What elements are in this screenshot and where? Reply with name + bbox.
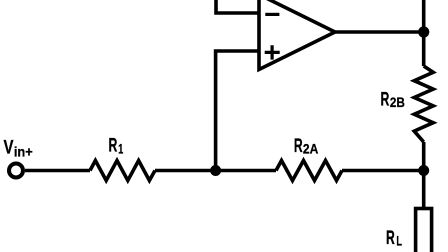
op-amp U1	[259, 0, 335, 70]
input terminal circle Vin+	[9, 164, 23, 178]
wire op-amp output	[335, 30, 424, 34]
wire R1 to node A and on to R2A	[155, 169, 276, 173]
wire from node A up to non-inverting input	[216, 51, 259, 171]
node B (right bottom junction)	[418, 165, 429, 176]
node output junction	[418, 26, 429, 37]
wire R2B to node B and down to RL	[422, 142, 426, 209]
svg-text:R: R	[109, 136, 118, 157]
wire terminal to R1	[25, 169, 90, 173]
svg-text:V: V	[4, 137, 14, 158]
resistor R1	[90, 161, 155, 181]
svg-text:R: R	[381, 90, 390, 111]
op-amp minus pin symbol	[265, 13, 279, 16]
resistor R2B	[414, 66, 433, 142]
wire right vertical (output node up, cut off)	[422, 0, 426, 66]
svg-text:2A: 2A	[303, 140, 318, 156]
svg-text:2B: 2B	[390, 94, 405, 110]
resistor RL (box style)	[416, 209, 432, 252]
node A (input junction)	[210, 165, 221, 176]
svg-text:R: R	[294, 136, 303, 157]
op-amp plus pin symbol	[265, 45, 280, 59]
svg-text:in+: in+	[14, 143, 33, 159]
svg-text:1: 1	[118, 141, 123, 157]
svg-text:R: R	[386, 228, 395, 249]
wire R2A to node B	[342, 169, 424, 173]
resistor R2A	[276, 161, 342, 181]
wire to inverting input (from top, cut off)	[216, 0, 259, 13]
svg-text:L: L	[396, 232, 402, 248]
